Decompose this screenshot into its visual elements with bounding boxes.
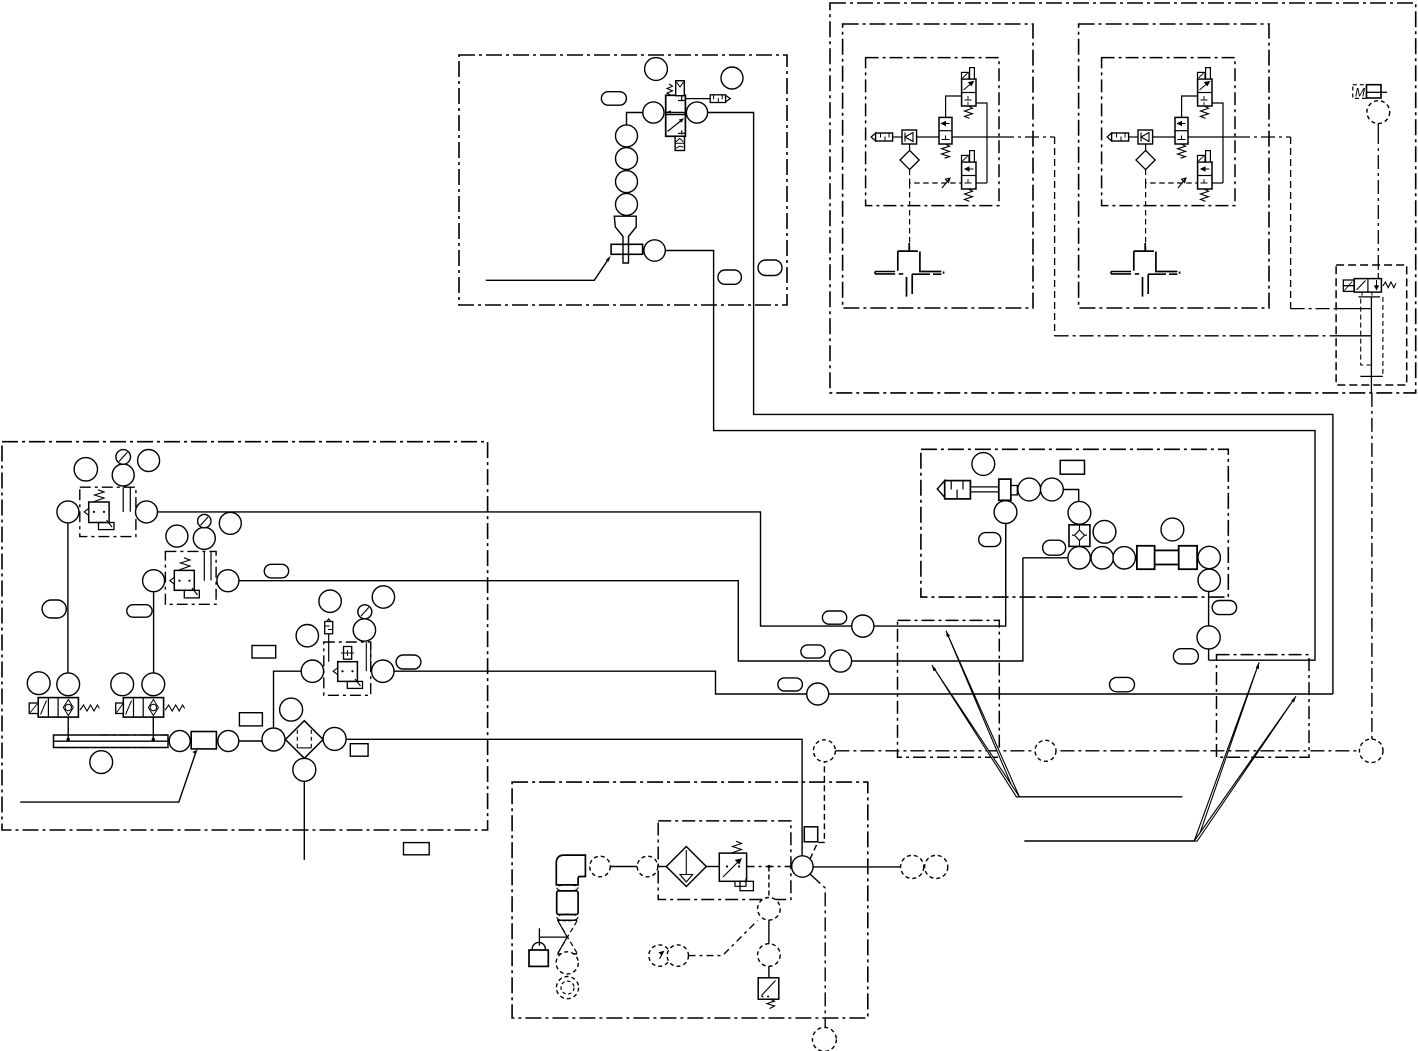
node: circle after filter box (218, 731, 239, 752)
engine block (898, 243, 942, 272)
wire: R1 left circle drop (67, 523, 69, 673)
SV1 check symbol in right cell (63, 700, 73, 716)
air motor / vibrator body (937, 481, 944, 498)
node: R1 port circles (57, 501, 79, 523)
label pill lower left of that (1173, 649, 1198, 664)
union symbol 2 (557, 914, 578, 921)
node: dashed circle next to gauge (667, 945, 688, 966)
wire: pilot line from top-left box valve to far right down-leg (708, 113, 1333, 695)
motor M dashed box (1353, 85, 1367, 99)
wire: check valve vertical (1078, 501, 1080, 546)
funnel crossbar block (611, 244, 643, 254)
rod double line (970, 487, 998, 492)
valve V1 pilot line to orifice (685, 98, 710, 100)
enclosure: pilot valve sub-box right (1336, 265, 1407, 385)
wire to relief valve (768, 966, 770, 978)
hose coupling right block (1179, 546, 1197, 569)
enclosure: middle-left control panel box (2, 442, 488, 830)
node: circle right of funnel (644, 240, 665, 261)
valve V1 bottom cell flow arrow (668, 120, 683, 132)
wire: callout leader for left strip (1018, 796, 1183, 798)
3/2 pilot valve V1 body (666, 95, 686, 136)
arrowhead on diagonal stub (606, 256, 611, 262)
wire: diamond drain down (303, 781, 305, 860)
node: circle above dumbbell (1161, 518, 1184, 541)
pilot valve internal piping (1370, 297, 1372, 377)
label pill above line3 (778, 678, 803, 691)
node: circle right of diamond (323, 727, 346, 750)
node: R3 port circles (301, 660, 323, 682)
regulator R2 spring (179, 558, 190, 570)
node: top circle B (721, 67, 743, 89)
nipple body (557, 891, 578, 915)
station outer box (843, 24, 1033, 308)
callout leader to filter box (20, 752, 196, 802)
node: circle above diamond (280, 698, 303, 721)
SV1 coil tab (29, 703, 38, 714)
main output wire (952, 136, 1000, 138)
callout spike right-1 (1194, 662, 1259, 841)
wire: dash-dot drop from bottom box junction down to bottom coupler (810, 874, 825, 1027)
label pill mid (264, 564, 288, 578)
top solenoid coil (962, 72, 970, 79)
union symbol 1 (557, 885, 578, 892)
rod end block (999, 479, 1011, 500)
node: circle below it (1198, 569, 1220, 591)
node: circle right of coupling (1198, 546, 1220, 568)
main filter diamond (285, 721, 323, 759)
dashed wire gauge to drop (689, 921, 758, 956)
hose coupling dumbbell bar (1150, 550, 1183, 564)
junction dot: bottom box inner line (959, 136, 961, 138)
pilot solenoid coil (1343, 280, 1354, 286)
throttle arrow on drain line (942, 178, 950, 188)
valve V1 top cell blocked port T (678, 96, 686, 101)
enclosure: top-right outer station box (830, 3, 1416, 393)
wire regulator to junction (747, 866, 792, 868)
node: SV2 circles above (111, 673, 134, 696)
bottom regulator drain path (735, 878, 746, 886)
regulator R3 outlet passage verticals (366, 642, 370, 671)
label pill on line3 east (1110, 677, 1135, 691)
quick coupler double circle (556, 977, 578, 999)
wire check valve to unloader valve (917, 136, 939, 138)
dashed stem down to engine (909, 183, 911, 250)
valve V1 pilot cap on top (676, 81, 685, 96)
node: dashed circle under compressor (1367, 101, 1390, 124)
filter-separator diamond (666, 847, 706, 887)
wire: dashed riser from bottom box junction up to bus circle (810, 762, 824, 859)
check valve square (1069, 525, 1090, 547)
node: circle above check valve (1068, 501, 1091, 524)
wire: funnel output from top-left box to right strip rail (665, 251, 1315, 661)
shutoff valve bowtie (557, 920, 577, 954)
engine base double line (875, 272, 903, 274)
node: circle on line3 (807, 683, 829, 705)
label pill bottom-right 1 (718, 270, 742, 284)
spring below top solenoid (965, 106, 973, 118)
wire: main dash-dot pilot bus at y=751 (835, 750, 1359, 752)
wire: station B output drop and run to pilot valve (1290, 137, 1292, 309)
node: coupler dashed circles east of box (901, 855, 924, 878)
junction dot on line (767, 865, 770, 868)
regulator R2 valve square (174, 570, 194, 590)
SV2 coil tab (116, 703, 124, 714)
node: stack circle 2 (616, 148, 638, 170)
junction dot: SV2 drain at manifold (152, 738, 155, 741)
regulator R3 pilot cap (344, 647, 352, 660)
node: dashed circle bottom outlet (812, 1027, 836, 1051)
node: top circle A (645, 58, 668, 81)
label pill bottom-right 2 (758, 260, 782, 276)
node: circle right of check valve (1093, 520, 1116, 543)
node: circle before diamond (262, 728, 285, 751)
wire: R3 inlet from west (274, 671, 302, 728)
node: dashed circle on pilot bus mid (1035, 740, 1056, 761)
node: R1 gauge circles above (74, 458, 97, 481)
regulator R3 dashed box (324, 642, 371, 695)
SV2 spring right (165, 705, 184, 711)
node: circle manifold outlet (169, 731, 190, 752)
wire: coupling to circles right (1197, 557, 1209, 559)
wire top solenoid to right drop (976, 103, 987, 183)
wire: line1 regulator1 output to middle-right box (158, 512, 1006, 626)
station inner box (866, 58, 999, 206)
regulator R1 valve square (89, 502, 109, 523)
valve V1 top cell port arrow left (667, 110, 672, 113)
enclosure: top-left pilot unit box (459, 55, 787, 305)
regulator R1 dashed box (80, 487, 136, 536)
check valve (902, 130, 917, 144)
wire silencer to check valve (893, 136, 902, 138)
wire: line3 regulator3 output heading east (394, 671, 1333, 694)
enclosure: right manifold strip box (1217, 655, 1310, 758)
label pill top-left (601, 92, 626, 106)
top solenoid valve (962, 79, 976, 106)
callout spike left-2 (932, 665, 1020, 797)
node: dashed circle below valve (556, 952, 578, 974)
node: R2 port circles (143, 570, 165, 592)
wire elbow circle to next (610, 866, 637, 868)
label pill below box right (1212, 601, 1236, 615)
hose coupling left block (1137, 546, 1155, 569)
funnel (venturi) body (614, 216, 636, 263)
inline filter box (191, 732, 216, 749)
wire: R2 left circle drop (153, 592, 155, 673)
node: stack circle 1 (616, 125, 638, 147)
label pill left of row (1043, 540, 1066, 555)
padlock (529, 950, 548, 966)
wire: valve left port corner (627, 113, 643, 126)
wire: bottom row line (1023, 557, 1137, 559)
label pill upper left area (979, 533, 1001, 547)
bottom regulator spring top (731, 841, 742, 853)
wire: SV2 to manifold (152, 717, 154, 739)
elbow fitting (556, 855, 585, 885)
label box left of diamond (239, 713, 262, 726)
label pill left 2 (127, 605, 152, 618)
wire: callout leader for right strip (1024, 840, 1195, 842)
node: circles right of stub (1018, 478, 1041, 501)
node: SV1 circles above (27, 672, 50, 695)
silencer at intake (871, 133, 876, 141)
label box small mid (252, 646, 276, 659)
solenoid valve SV1 body (38, 698, 78, 718)
valve V1 spring top-left (667, 84, 673, 96)
node: dashed circle at pilot bus west end (813, 740, 835, 762)
wire into filter (658, 866, 667, 868)
SV1 spring right (80, 705, 99, 711)
node: R2 gauge circles above (166, 525, 188, 547)
intake filter diamond (909, 144, 911, 150)
label pill above line2 (801, 645, 825, 658)
node: junction circle (792, 856, 813, 877)
wire: line2 regulator2 output to middle-right box (239, 558, 1023, 661)
callout spike right-2 (1194, 696, 1296, 841)
regulator R1 drain box (99, 523, 115, 530)
engine legs (907, 274, 913, 296)
node: R3 gauge circles above (319, 590, 341, 612)
wire lower solenoid to right drop (976, 182, 987, 184)
node: circle at 637 below box (1197, 626, 1220, 649)
label pill right of R3 (396, 655, 421, 669)
unloader pilot valve center (939, 117, 952, 144)
node: stack circle 3 (616, 171, 638, 193)
wire between drop circles (768, 920, 770, 944)
dashed drop to gauge circle (768, 867, 770, 898)
spring below unloader (942, 144, 950, 158)
station B (duplicate shifted right) (1079, 24, 1291, 308)
wire diamond to regulator (706, 866, 719, 868)
spring below lower solenoid (965, 189, 973, 201)
node: circle right of valve V1 (686, 102, 707, 123)
orifice fitting (710, 95, 725, 103)
wire: dash-dot drop from pilot valve to bus (1371, 393, 1373, 739)
wire: SV1 to manifold (67, 717, 69, 739)
junction dot: SV1 drain at manifold (67, 738, 70, 741)
pilot valve body (1354, 279, 1381, 293)
node: dashed circle 2 (637, 856, 658, 877)
relief valve spring below (767, 999, 775, 1008)
pressure gauge dashed circle with needle (649, 945, 670, 966)
wire motor to pilot valve (1377, 124, 1379, 131)
wire top solenoid valve to unloader (946, 96, 962, 117)
label box top (1060, 460, 1084, 474)
compressor block (1367, 85, 1382, 98)
enclosure: middle-right cylinder box (921, 449, 1228, 597)
wire: stub to circles and down to check valve (1017, 490, 1078, 502)
node: bottom row circles (1068, 547, 1090, 569)
node: circle on line1 (852, 615, 874, 637)
pilot valve spring right (1383, 282, 1396, 288)
enclosure: bottom inner filter-regulator box (658, 821, 791, 900)
valve handle (539, 928, 567, 946)
label pill above line1 (822, 611, 846, 624)
callout spike left-1 (946, 631, 1019, 797)
wire manifold to filter box (168, 740, 262, 742)
node: dashed circle lower drop (758, 944, 781, 967)
regulator R2 drain box (184, 590, 199, 598)
relief valve square (758, 978, 779, 999)
regulator R3 drain box (347, 681, 362, 688)
node: circle under manifold (90, 751, 113, 774)
node: circle on line2 (829, 650, 851, 672)
node: circle left of valve V1 (643, 102, 664, 123)
node: dashed circle at pilot bus junction right (1359, 739, 1383, 763)
solenoid valve SV2 body (123, 698, 163, 718)
manifold bar (54, 735, 169, 748)
node: dashed circle at elbow outlet (590, 856, 611, 877)
regulator R2 inlet passage verticals (204, 551, 211, 580)
wire: bottom box supply line west to middle-left box filter (346, 739, 802, 856)
node: circle top left in box (972, 453, 995, 476)
label box above junction (804, 827, 817, 842)
wire: station A output drop and run to pilot valve (1054, 137, 1056, 336)
lower solenoid valve (962, 162, 976, 189)
regulator R1 inlet passage verticals (123, 487, 130, 512)
bleed needle component above R3 (325, 619, 333, 624)
node: circle below diamond (293, 758, 316, 781)
lower solenoid coil (962, 155, 970, 162)
enclosure: bottom air-prep box (512, 782, 868, 1018)
label pill left 1 (42, 600, 66, 618)
regulator R3 valve square (338, 662, 358, 682)
node: dashed circle mid drop (758, 898, 781, 921)
wire: stub into left edge of top-left box (486, 258, 610, 281)
stub fitting (1011, 486, 1017, 495)
bottom regulator square (719, 853, 746, 881)
enclosure: left manifold strip box (898, 620, 1000, 757)
wire: cylinder port drop from circle to line1 (1208, 591, 1210, 660)
valve V1 exhaust silencer below (675, 136, 684, 150)
SV2 check symbol in right cell (148, 700, 158, 716)
regulator R1 spring (93, 490, 104, 502)
wire: bottom box east line to couplers (813, 866, 901, 868)
node: circle under rod block (994, 501, 1017, 524)
regulator R2 dashed box (165, 551, 216, 604)
wire: block bottom circle drop to line1 (1005, 524, 1007, 598)
svg-text:M: M (1355, 86, 1365, 100)
label box below panel (404, 843, 430, 855)
pilot valve port bar (1358, 296, 1380, 298)
label box right of diamond (350, 744, 368, 757)
node: stack circle 4 (616, 193, 638, 215)
dashed drain from filter (910, 170, 962, 183)
